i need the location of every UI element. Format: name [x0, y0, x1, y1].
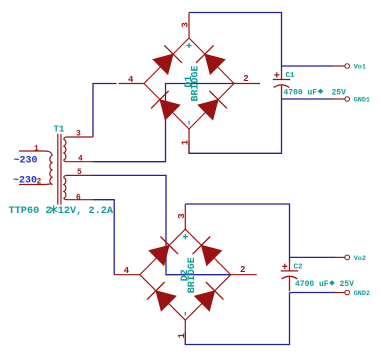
minus mark D2 [184, 312, 186, 316]
svg-text:2: 2 [240, 265, 245, 275]
svg-text:2: 2 [243, 74, 248, 84]
pin 1 lead of D1 [188, 129, 190, 153]
svg-text:25V: 25V [340, 280, 355, 289]
port pin lead Vo2 [333, 256, 345, 258]
T1 primary winding with pin1/pin2 leads [19, 151, 52, 185]
diode D1 top-right [196, 45, 225, 74]
wire: C1 bottom to GND1 and down [189, 99, 282, 153]
svg-text:4: 4 [78, 154, 83, 163]
T1 value label TTP60 2*12V, 2.2A [9, 205, 114, 217]
port circle Vo2 [345, 255, 350, 260]
wire: C2 bottom to GND2 and down [185, 293, 289, 345]
bridge rectifier D2 body [140, 229, 231, 320]
svg-text:4: 4 [124, 266, 130, 276]
port pin lead Vo1 [333, 65, 345, 67]
transformer T1 [19, 124, 93, 204]
capacitor C1 bottom lead [281, 85, 283, 99]
svg-text:2: 2 [37, 178, 42, 187]
T1 core lines [58, 134, 61, 205]
T1 secondary winding pins 3-4 [64, 137, 93, 162]
wire: Vo2 tap [290, 256, 336, 258]
svg-text:GND2: GND2 [354, 290, 370, 298]
wire: D2 pin3 top rail to C2/Vo2 [185, 204, 289, 262]
capacitor C2 plus sign [282, 264, 287, 269]
svg-text:6: 6 [76, 193, 81, 202]
svg-text:T1: T1 [54, 124, 65, 134]
capacitor C1 plus sign [274, 72, 279, 77]
pin 1 lead of D2 [184, 320, 186, 344]
svg-text:Vo1: Vo1 [354, 64, 366, 72]
svg-text:25V: 25V [332, 89, 347, 98]
capacitor C1 curved plate [274, 85, 290, 88]
diode D1 bottom-left [151, 91, 180, 120]
capacitor C2 curved plate [282, 276, 298, 279]
svg-text:12V, 2.2A: 12V, 2.2A [58, 205, 114, 217]
diode D1 bottom-right [198, 91, 227, 120]
port circle Vo1 [345, 64, 350, 69]
capacitor C2 top lead [289, 261, 291, 271]
pin 3 lead of D2 [184, 204, 186, 229]
capacitor C2 positive plate [281, 270, 299, 272]
wire: Vo1 tap [282, 65, 334, 67]
svg-text:1: 1 [181, 139, 191, 145]
svg-text:C1: C1 [286, 72, 296, 80]
svg-text:3: 3 [181, 22, 191, 27]
wire: GND1 tap [282, 98, 334, 100]
svg-text:5: 5 [77, 168, 82, 177]
capacitor C1 positive plate [273, 79, 291, 81]
plus mark D2 [183, 234, 188, 239]
diode D2 bottom-right [195, 282, 224, 311]
wire: D1 pin3 top rail to C1/Vo1 [189, 13, 282, 71]
svg-text:3: 3 [177, 213, 187, 218]
wire: T1 pin4 to D1 pin2 [93, 84, 234, 162]
port pin lead GND1 [333, 98, 345, 100]
svg-text:4: 4 [128, 75, 134, 85]
svg-text:TTP60 2: TTP60 2 [9, 205, 52, 217]
diode D2 top-right [193, 237, 222, 266]
C2 value label 4700 uF @ 25V [295, 280, 354, 289]
svg-text:Vo2: Vo2 [354, 255, 366, 263]
C1 value label 4700 uF @ 25V [284, 89, 347, 98]
capacitor C2 bottom lead [289, 277, 291, 291]
svg-text:4700 uF: 4700 uF [295, 280, 329, 289]
pin 2 lead of D2 [231, 274, 257, 276]
pin 4 lead of D1 [119, 83, 145, 85]
port pin lead GND2 [333, 292, 345, 294]
port circle GND2 [345, 290, 350, 295]
svg-text:4700 uF: 4700 uF [284, 89, 318, 98]
capacitor C1 top lead [281, 70, 283, 80]
diode D2 top-left [149, 237, 178, 266]
wire: T1 pin6 to D2 pin4 [93, 200, 114, 275]
svg-text:GND1: GND1 [354, 97, 370, 105]
bridge rectifier D1 body [144, 38, 234, 129]
svg-text:3: 3 [76, 130, 81, 139]
minus mark D1 [188, 121, 190, 125]
svg-text:C2: C2 [294, 263, 304, 271]
T1 secondary winding pins 5-6 [64, 175, 93, 199]
svg-text:~230: ~230 [13, 176, 37, 187]
pin 3 lead of D1 [188, 13, 190, 39]
diode D1 top-left [153, 45, 182, 74]
pin 2 lead of D1 [234, 83, 260, 85]
svg-text:BRIDGE: BRIDGE [187, 257, 198, 293]
plus mark D1 [186, 43, 191, 48]
svg-text:~230: ~230 [14, 155, 38, 166]
pin 4 lead of D2 [114, 274, 140, 276]
wire: T1 pin3 to D1 pin4 (net up-riser) [93, 84, 117, 138]
wire: GND2 tap [290, 292, 336, 294]
wire: T1 pin5 to D2 pin2 [93, 175, 231, 274]
diode D2 bottom-left [147, 282, 176, 311]
port circle GND1 [345, 97, 350, 102]
svg-text:1: 1 [177, 333, 187, 339]
svg-text:BRIDGE: BRIDGE [191, 65, 202, 101]
svg-text:1: 1 [34, 145, 39, 154]
